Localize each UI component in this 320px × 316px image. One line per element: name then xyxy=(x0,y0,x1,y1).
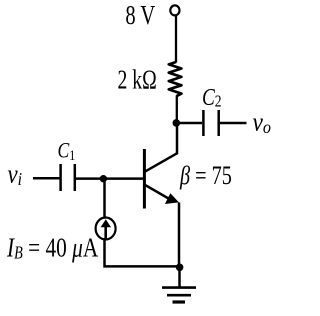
wire C2 to vo xyxy=(220,122,247,125)
wire current source to corner to ground node xyxy=(105,238,180,266)
supply terminal circle xyxy=(170,5,179,15)
node dot base xyxy=(100,175,107,182)
current source IB xyxy=(96,218,116,240)
node dot collector xyxy=(173,119,181,127)
wire supply to resistor xyxy=(175,16,177,63)
svg-text:2 kΩ: 2 kΩ xyxy=(118,65,157,95)
node dot emitter-ground xyxy=(176,264,184,272)
collector diagonal xyxy=(145,153,177,171)
ground bar 3 xyxy=(173,300,186,303)
collector wire up to node xyxy=(176,123,179,154)
ground bar 1 xyxy=(162,286,196,289)
ground bar 2 xyxy=(167,294,191,297)
wire node to C2 xyxy=(177,122,202,125)
wire base node down to current source xyxy=(103,179,106,219)
capacitor C1 xyxy=(61,164,75,191)
wire resistor to collector node xyxy=(176,96,178,123)
wire node to ground xyxy=(178,267,181,287)
emitter wire down to node xyxy=(178,203,181,268)
capacitor C2 xyxy=(203,110,218,136)
wire C1 to base xyxy=(76,177,143,180)
transistor Q1 base bar xyxy=(143,149,146,209)
svg-text:β = 75: β = 75 xyxy=(179,162,232,191)
wire vi to C1 xyxy=(33,177,60,180)
emitter diagonal with arrow xyxy=(145,185,172,201)
resistor 2 kOhm xyxy=(169,62,182,96)
svg-text:8 V: 8 V xyxy=(125,1,155,30)
